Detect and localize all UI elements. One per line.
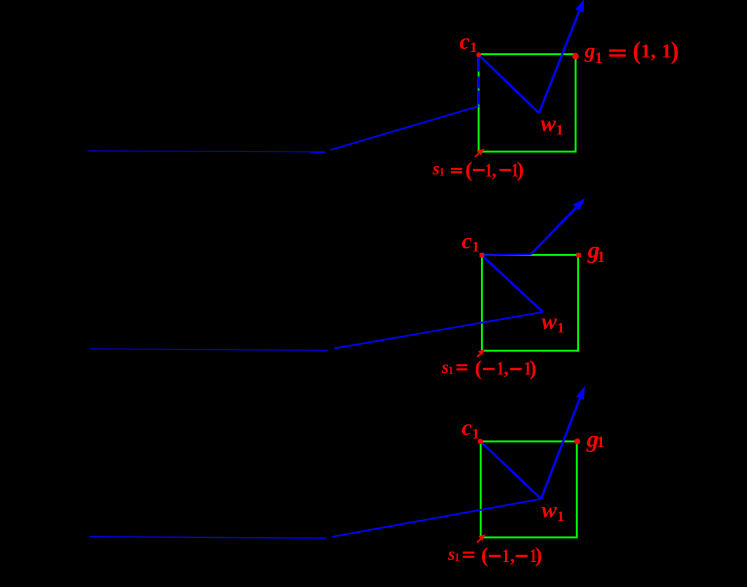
node g1 dot panel 1 <box>572 53 579 60</box>
svg-text:g: g <box>584 39 596 63</box>
wire: rising trajectory segment to boundary panel 1 <box>331 106 479 150</box>
node s1 marker arrow panel 2 <box>477 354 481 357</box>
svg-text:): ) <box>529 356 536 380</box>
node c1 dot panel 3 <box>478 439 483 444</box>
wire: segment along top edge panel 2 <box>482 253 531 256</box>
wire: rising trajectory segment to w1 panel 2 <box>334 312 543 349</box>
feasible square K panel 1 <box>479 54 576 151</box>
svg-text:(: ( <box>475 356 482 380</box>
wire: incoming thin trajectory segment panel 3 <box>89 537 326 539</box>
svg-text:(: ( <box>465 158 472 182</box>
svg-text:,: , <box>510 546 515 567</box>
node s1 marker arrow panel 1 <box>475 153 479 157</box>
svg-text:(: ( <box>633 38 641 65</box>
svg-text:1: 1 <box>439 165 444 179</box>
svg-text:): ) <box>535 543 542 567</box>
arrow shaft panel 2 <box>531 205 579 254</box>
wire: segment c1 to w1 panel 1 <box>479 55 539 113</box>
node c1 dot panel 1 <box>476 52 481 57</box>
node g1 dot panel 3 <box>574 438 580 444</box>
svg-text:,: , <box>492 160 497 181</box>
wire: rising trajectory segment to w1 panel 3 <box>333 499 542 537</box>
wire: segment c1 to w1 panel 2 <box>482 255 543 312</box>
svg-text:1: 1 <box>502 546 509 567</box>
svg-text:(: ( <box>481 543 488 567</box>
node s1 marker arrow panel 3 <box>477 539 481 543</box>
arrowhead panel 3 <box>576 386 585 400</box>
arrow shaft from w1 panel 1 <box>539 8 581 113</box>
node c1 square dot panel 2 <box>480 253 485 258</box>
arrowhead panel 2 <box>573 198 585 210</box>
wire: segment c1 to w1 panel 3 <box>481 442 541 499</box>
wire: dashed projection segment along left edge panel 1 <box>478 57 480 105</box>
wire: incoming thin trajectory segment panel 1 <box>87 150 310 153</box>
feasible square K panel 3 <box>481 441 577 537</box>
node g1 square dot panel 2 <box>576 253 581 258</box>
svg-text:1: 1 <box>595 50 603 67</box>
feasible square K panel 2 <box>482 255 578 351</box>
svg-text:1: 1 <box>597 249 605 266</box>
svg-text:1: 1 <box>455 550 460 564</box>
svg-text:1: 1 <box>641 41 651 63</box>
wire: trajectory overlap segment panel 1 <box>310 151 325 153</box>
svg-text:): ) <box>671 38 679 65</box>
arrowhead panel 1 <box>575 0 584 13</box>
wire: incoming thin trajectory segment panel 2 <box>90 349 328 351</box>
svg-text:,: , <box>504 359 509 380</box>
svg-text:1: 1 <box>597 434 605 451</box>
svg-text:,: , <box>651 41 656 63</box>
svg-text:): ) <box>517 158 524 182</box>
arrow shaft panel 3 <box>541 394 581 499</box>
svg-text:1: 1 <box>448 363 453 377</box>
